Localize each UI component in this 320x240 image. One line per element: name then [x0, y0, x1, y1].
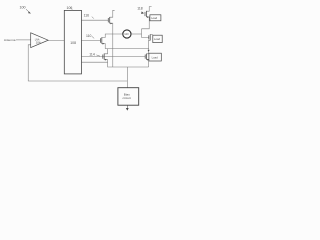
svg-text:100: 100 — [20, 6, 26, 10]
svg-text:110: 110 — [86, 34, 92, 38]
svg-text:Antenna: Antenna — [4, 38, 16, 42]
svg-text:Load: Load — [154, 37, 160, 41]
svg-text:120: 120 — [124, 32, 129, 36]
svg-text:circuit: circuit — [123, 96, 131, 100]
svg-text:114: 114 — [89, 52, 95, 56]
svg-text:Load: Load — [151, 16, 157, 20]
svg-text:118: 118 — [137, 7, 143, 11]
svg-text:116: 116 — [84, 14, 90, 18]
svg-text:104: 104 — [36, 40, 41, 44]
svg-text:106: 106 — [67, 6, 73, 10]
svg-text:108: 108 — [70, 41, 76, 45]
svg-text:Load: Load — [152, 55, 158, 59]
